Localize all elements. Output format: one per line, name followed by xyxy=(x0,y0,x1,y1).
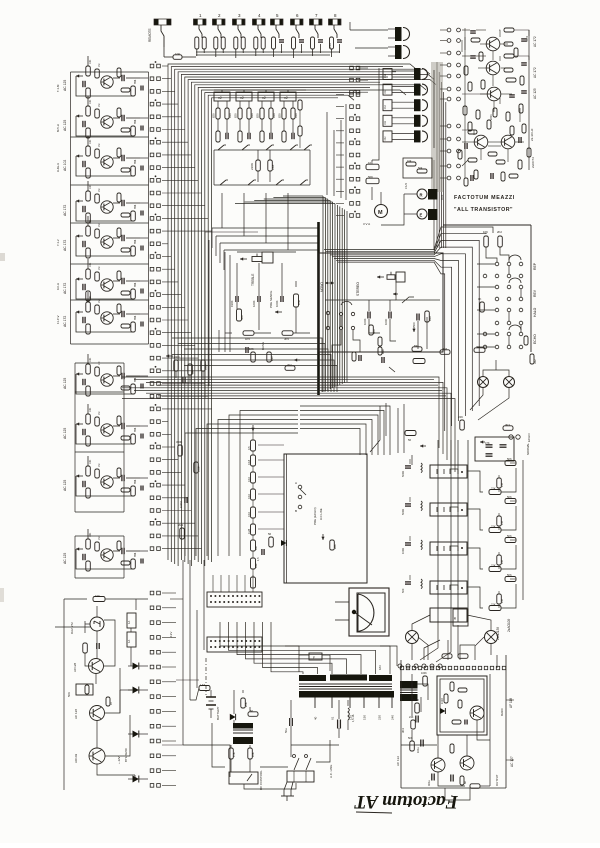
middle vertical wire bundle xyxy=(323,196,347,392)
fuse 1,5-16 xyxy=(348,708,355,722)
svg-text:100K: 100K xyxy=(525,36,528,42)
capacitor 50u xyxy=(284,718,292,733)
mains transformer core xyxy=(299,684,392,689)
tape head box 3 xyxy=(430,542,467,555)
svg-text:AC 128: AC 128 xyxy=(74,709,78,719)
svg-text:150: 150 xyxy=(363,715,367,720)
svg-text:220K: 220K xyxy=(490,114,493,120)
svg-text:MONO: MONO xyxy=(320,282,324,292)
erase coil 1 xyxy=(401,459,422,477)
choke transformer CH1 xyxy=(383,68,428,80)
dc converter transformer xyxy=(233,723,253,744)
lamp echo A xyxy=(478,377,489,388)
svg-text:500K: 500K xyxy=(413,698,419,702)
svg-text:500: 500 xyxy=(401,588,405,593)
svg-text:56: 56 xyxy=(268,532,272,536)
svg-text:1M: 1M xyxy=(98,224,101,227)
resistor B45 xyxy=(249,347,255,362)
amplifier stage AC 172 T7 xyxy=(63,292,148,334)
resistor 3K3 right xyxy=(503,423,513,430)
divider box x2 strip 4 xyxy=(280,90,296,101)
svg-text:160K: 160K xyxy=(252,300,256,307)
svg-text:820: 820 xyxy=(256,113,260,118)
resistors strip 4 xyxy=(278,101,299,142)
resistor 10K supply xyxy=(93,594,148,602)
relay section verticals xyxy=(438,440,523,622)
divider box x2 strip 3 xyxy=(258,90,274,101)
label AC125 right xyxy=(533,88,537,99)
tape head box 2 xyxy=(430,503,467,516)
svg-text:20K: 20K xyxy=(244,702,248,707)
psu frame wire xyxy=(55,626,90,628)
svg-text:3K5: 3K5 xyxy=(284,337,289,341)
svg-text:1M: 1M xyxy=(98,267,101,270)
svg-text:CH: CH xyxy=(383,105,387,109)
preamp echo control box xyxy=(284,454,367,583)
psu wires bottom xyxy=(291,700,417,745)
bottom corner bundle xyxy=(220,622,390,674)
amplifier block frames xyxy=(71,72,149,578)
svg-text:820: 820 xyxy=(278,113,282,118)
svg-text:1K16: 1K16 xyxy=(441,698,444,704)
key switch 6 xyxy=(291,13,304,38)
svg-text:A: A xyxy=(295,481,297,485)
resistor 1K5 bass xyxy=(243,331,254,341)
dash dot wire xyxy=(205,658,207,695)
resistor 560 xyxy=(237,309,245,321)
label ECHO xyxy=(533,334,537,344)
resistor 100K mid xyxy=(201,360,208,371)
svg-text:5K6: 5K6 xyxy=(507,495,512,499)
svg-text:E: E xyxy=(313,656,315,660)
key switch 4 xyxy=(253,13,266,38)
amplifier stage AC 125 T9 xyxy=(63,404,148,446)
echo matrix border xyxy=(443,225,531,352)
capacitor 100K stereo xyxy=(363,300,370,325)
svg-text:50K: 50K xyxy=(418,167,423,170)
switch cell column middle xyxy=(336,90,360,218)
resistor 10K echo xyxy=(483,230,488,247)
resistor 1M top xyxy=(474,345,485,352)
resistor 2K2 echo xyxy=(497,230,502,247)
svg-text:45: 45 xyxy=(453,616,457,620)
svg-text:240: 240 xyxy=(391,715,395,720)
label FACTOTUM MEAZZI xyxy=(454,195,515,201)
resistor 1M xyxy=(188,364,195,375)
feedback amp box xyxy=(437,676,487,735)
svg-text:10K: 10K xyxy=(89,262,92,267)
svg-text:1A: 1A xyxy=(127,621,131,624)
transistor AD149 xyxy=(74,748,105,764)
svg-text:1M: 1M xyxy=(98,104,101,107)
svg-text:A.C.LINE: A.C.LINE xyxy=(319,508,323,520)
svg-text:AC 125: AC 125 xyxy=(533,88,537,99)
svg-text:10K: 10K xyxy=(89,295,92,300)
gray scan band wires xyxy=(431,62,443,192)
svg-text:1,5A: 1,5A xyxy=(200,683,206,687)
resistor 342 edge xyxy=(530,354,537,364)
resistor 220K mid xyxy=(250,150,275,182)
label AC132 xyxy=(396,756,400,766)
resistor 500K psu xyxy=(413,698,419,713)
svg-text:CH: CH xyxy=(383,137,387,141)
svg-text:CH: CH xyxy=(383,90,387,94)
transformer top wires xyxy=(285,646,330,672)
svg-text:1000: 1000 xyxy=(384,318,388,325)
svg-text:0,10: 0,10 xyxy=(247,476,251,482)
label REP xyxy=(533,262,537,270)
contact pairs column right xyxy=(440,28,460,180)
svg-text:10K: 10K xyxy=(483,230,488,234)
svg-text:B98: B98 xyxy=(134,204,137,209)
pot box cluster right xyxy=(403,158,432,178)
svg-text:M-5-H: M-5-H xyxy=(56,124,60,132)
svg-text:2xOC72: 2xOC72 xyxy=(531,157,535,168)
svg-text:AC 127: AC 127 xyxy=(510,756,514,767)
svg-text:1M: 1M xyxy=(98,64,101,67)
potentiometer 50K supply xyxy=(67,684,93,697)
svg-text:56: 56 xyxy=(408,438,411,442)
svg-text:10K: 10K xyxy=(407,160,412,163)
svg-text:REV: REV xyxy=(533,289,537,297)
svg-text:1M: 1M xyxy=(98,537,101,540)
resistor divider under key 6 xyxy=(292,37,305,53)
arrow mid cluster xyxy=(166,354,173,357)
resistor B20 xyxy=(267,352,274,362)
lamp bottom wires xyxy=(412,615,491,660)
left vertical wire bundle xyxy=(168,150,212,566)
svg-text:100K: 100K xyxy=(204,364,208,370)
svg-text:B: B xyxy=(295,509,297,513)
connector block 2 xyxy=(207,637,262,652)
horizontal wire highway upper xyxy=(172,338,337,392)
svg-text:10K: 10K xyxy=(89,357,92,362)
key switch 7 xyxy=(310,13,323,38)
mains transformer secondary bar xyxy=(299,691,394,698)
svg-text:B10: B10 xyxy=(428,316,432,321)
svg-text:1300K: 1300K xyxy=(172,355,180,359)
svg-text:TREBLE: TREBLE xyxy=(251,274,255,286)
erase coil 2 xyxy=(401,497,422,515)
resistor 2K2 bass xyxy=(285,363,295,370)
svg-text:10K: 10K xyxy=(251,752,255,757)
driver box bottom xyxy=(430,608,468,626)
resistor 3K3 bass xyxy=(282,331,293,341)
svg-text:x2: x2 xyxy=(262,96,266,100)
resistor B93 stereo xyxy=(412,344,422,351)
rectifier diode D3 xyxy=(128,731,148,738)
components echo send xyxy=(352,352,425,372)
resistor divider under key 7 xyxy=(311,37,324,53)
connector block 1 xyxy=(207,592,262,607)
svg-text:1,5-16.: 1,5-16. xyxy=(351,714,355,722)
resistor echo right xyxy=(524,336,528,345)
label ECHO NORMAL xyxy=(527,433,531,442)
label B600 xyxy=(500,708,504,716)
cluster wires xyxy=(176,371,203,382)
resistor divider under key 1 xyxy=(195,37,206,53)
fuse 1,5A xyxy=(199,683,210,691)
relay to transformer wires xyxy=(420,622,458,662)
resistor 56 dc xyxy=(248,709,258,716)
transistor right amp Q1 xyxy=(486,37,500,51)
capacitor bass net xyxy=(246,347,248,353)
amplifier stage AC 125 T1 xyxy=(63,56,148,98)
choke transformer CH5 xyxy=(383,130,428,142)
svg-text:3K3: 3K3 xyxy=(505,423,510,427)
svg-text:28K: 28K xyxy=(333,544,337,549)
power amp wires xyxy=(412,674,490,786)
scan specks left edge xyxy=(0,253,5,602)
svg-text:R: R xyxy=(420,193,423,198)
pilot lamp left xyxy=(406,631,419,644)
svg-text:A-4E-U: A-4E-U xyxy=(56,163,60,172)
svg-text:2K2: 2K2 xyxy=(497,230,502,234)
svg-text:50K: 50K xyxy=(67,692,71,697)
svg-text:100K: 100K xyxy=(363,318,367,325)
label 242 under key 8 xyxy=(328,43,332,48)
switch cell column top xyxy=(350,66,368,94)
vertical wires echo matrix to top amp xyxy=(434,62,446,250)
resistor divider under key 8 xyxy=(330,37,343,53)
svg-text:B47: B47 xyxy=(254,545,258,550)
svg-text:100K: 100K xyxy=(421,672,427,675)
svg-text:11-P-V: 11-P-V xyxy=(56,315,60,324)
svg-text:B98: B98 xyxy=(134,79,137,84)
label AC172 b xyxy=(533,67,537,78)
fuse box E xyxy=(309,653,322,660)
switch cell column left xyxy=(150,61,211,550)
left channel tags xyxy=(56,84,60,324)
label HALO xyxy=(533,307,537,317)
svg-text:AC 172: AC 172 xyxy=(63,283,67,294)
battery symbol xyxy=(206,690,220,720)
label AF118 xyxy=(509,698,513,708)
svg-text:1M: 1M xyxy=(476,345,481,349)
svg-text:B98: B98 xyxy=(134,239,137,244)
svg-text:M: M xyxy=(378,210,383,216)
svg-text:50K: 50K xyxy=(368,175,373,179)
svg-text:100K: 100K xyxy=(275,300,279,307)
resistor 1300K xyxy=(172,355,180,371)
svg-text:2M2: 2M2 xyxy=(178,523,184,527)
resistor 2K8 xyxy=(440,347,450,354)
svg-text:AC 172: AC 172 xyxy=(533,36,537,47)
wires to tone section xyxy=(212,228,318,270)
svg-text:AC 172: AC 172 xyxy=(63,240,67,251)
resistors strip 2 xyxy=(234,101,255,142)
strip extra resistors xyxy=(298,100,302,148)
svg-text:1K: 1K xyxy=(478,297,482,301)
rectifier diode D2 xyxy=(128,687,148,694)
svg-text:B93: B93 xyxy=(414,344,419,348)
mains plug xyxy=(281,782,294,801)
horizontal wire highway lower xyxy=(122,377,455,472)
amplifier stage AC 125 T10 xyxy=(63,456,148,498)
resistor 10K input xyxy=(164,47,196,59)
amplifier stage AC 125 T2 xyxy=(63,96,148,138)
relay coil 1A a xyxy=(127,613,136,628)
svg-text:DAZ 272: DAZ 272 xyxy=(70,622,74,634)
resistor 24K bottom xyxy=(458,415,464,430)
svg-text:22K: 22K xyxy=(491,487,496,491)
wires to transformers xyxy=(350,22,388,48)
resistor divider under key 3 xyxy=(234,37,245,53)
svg-text:22K: 22K xyxy=(491,525,496,529)
svg-text:1M: 1M xyxy=(500,560,504,564)
svg-text:0,28: 0,28 xyxy=(247,528,251,534)
jack E with plug xyxy=(417,209,438,220)
svg-text:DC CONTROL: DC CONTROL xyxy=(259,770,263,790)
resistor B58 xyxy=(294,294,302,307)
erase coil 4 xyxy=(401,575,422,593)
svg-text:A.C. LINE: A.C. LINE xyxy=(329,765,333,778)
svg-text:500: 500 xyxy=(412,322,416,327)
svg-text:5K6: 5K6 xyxy=(507,534,512,538)
label MONO with arrows xyxy=(320,282,334,293)
output transformer 2 xyxy=(388,45,410,59)
svg-text:STEREO: STEREO xyxy=(356,282,360,296)
svg-text:1M: 1M xyxy=(98,412,101,415)
resistor divider under key 5 xyxy=(272,37,285,53)
lamp wires xyxy=(470,360,509,420)
svg-text:24K: 24K xyxy=(409,716,414,719)
label 12V xyxy=(117,756,121,764)
svg-text:100M: 100M xyxy=(179,502,183,509)
svg-text:1M: 1M xyxy=(98,362,101,365)
thick bus line xyxy=(317,222,320,395)
power amp border xyxy=(401,655,506,788)
svg-text:560: 560 xyxy=(240,315,244,320)
key switch 2 xyxy=(213,13,226,38)
echo matrix wires xyxy=(477,247,509,347)
wire bundle corners top-left xyxy=(168,64,436,150)
svg-text:10K: 10K xyxy=(89,407,92,412)
supply mid wires xyxy=(120,599,136,779)
resistor 500 bottom stereo xyxy=(369,325,376,335)
channel strip bus top xyxy=(214,89,306,91)
resistor 20K dc xyxy=(241,698,248,708)
diode dc converter xyxy=(230,714,236,720)
svg-text:8x600: 8x600 xyxy=(500,708,504,716)
svg-text:1M: 1M xyxy=(98,189,101,192)
right amp wires xyxy=(462,28,529,178)
verticals echo send area xyxy=(370,403,412,465)
svg-text:PRE SENCE: PRE SENCE xyxy=(269,291,273,308)
svg-text:FACTOTUM MEAZZI: FACTOTUM MEAZZI xyxy=(454,195,515,201)
choke column wires xyxy=(372,68,434,160)
bias resistor network 1 xyxy=(467,457,516,495)
svg-text:22-30 HZ: 22-30 HZ xyxy=(530,128,534,141)
svg-text:10K: 10K xyxy=(89,459,92,464)
bottom left extra wires xyxy=(162,560,330,777)
label BY126 xyxy=(124,748,128,762)
feedback components xyxy=(441,682,467,725)
amplifier stage AC 172 T4 xyxy=(63,181,148,223)
highway branch corners down xyxy=(300,406,390,455)
stereo inner wires xyxy=(325,282,440,349)
resistor 2M2 lower xyxy=(178,523,184,539)
label 2xAO109 xyxy=(507,618,511,632)
strip tails down xyxy=(222,193,288,250)
svg-text:220K: 220K xyxy=(250,163,254,170)
output transformer 1 xyxy=(388,27,410,41)
power amp lower components xyxy=(408,716,480,788)
DC control box xyxy=(229,770,263,790)
svg-text:820: 820 xyxy=(212,113,216,118)
svg-text:47K: 47K xyxy=(232,752,236,757)
wires into connector 1 xyxy=(213,575,253,592)
svg-text:Factotum AT: Factotum AT xyxy=(353,791,459,812)
arrow down box xyxy=(321,534,324,540)
arrow D1B xyxy=(420,444,426,447)
capacitor psu right xyxy=(416,716,418,723)
svg-text:40: 40 xyxy=(314,716,318,720)
resistors power top xyxy=(421,654,468,686)
capacitor 160K xyxy=(252,296,260,307)
stereo switch contacts xyxy=(326,301,360,352)
transistor right amp Q3 xyxy=(487,87,501,101)
svg-text:AD149: AD149 xyxy=(74,753,78,763)
key switch 8 xyxy=(329,13,342,38)
svg-text:1M: 1M xyxy=(98,300,101,303)
transistor right amp Q5 xyxy=(501,135,515,149)
capacitor 1,5 xyxy=(256,549,264,561)
svg-text:x2: x2 xyxy=(218,96,222,100)
resistors strip 3 xyxy=(256,101,277,142)
svg-text:16: 16 xyxy=(427,796,431,800)
capacitor electrolytic xyxy=(338,720,341,729)
svg-text:10K: 10K xyxy=(89,219,92,224)
svg-text:1,5: 1,5 xyxy=(256,557,260,561)
svg-text:10K: 10K xyxy=(175,52,180,56)
svg-text:NORMAL: NORMAL xyxy=(526,443,530,455)
verticals left of tone block xyxy=(205,232,258,398)
resistor B98 xyxy=(378,347,385,355)
svg-text:100K: 100K xyxy=(401,548,405,554)
key switch 1 xyxy=(194,13,207,38)
svg-text:61: 61 xyxy=(331,716,335,720)
echo matrix contacts xyxy=(483,255,523,349)
lamp echo B xyxy=(504,377,515,388)
resistor 300K lower xyxy=(176,440,182,456)
svg-text:7-1-2: 7-1-2 xyxy=(56,239,60,246)
svg-text:3K3: 3K3 xyxy=(401,728,405,733)
label STEREO xyxy=(356,282,360,296)
svg-text:3 V A: 3 V A xyxy=(363,222,370,226)
VU meter xyxy=(335,588,389,636)
svg-text:1M: 1M xyxy=(500,599,504,603)
svg-text:47K: 47K xyxy=(485,441,490,445)
svg-text:AC 125: AC 125 xyxy=(63,80,67,91)
svg-text:220: 220 xyxy=(378,715,382,720)
label 2xOC72 xyxy=(531,157,535,168)
resistor 100K lower xyxy=(194,462,201,473)
resistor divider under key 2 xyxy=(214,37,225,53)
svg-text:REMOTE: REMOTE xyxy=(148,28,152,42)
bundle top corners xyxy=(235,104,346,204)
amplifier stage AC 172 T6 xyxy=(63,259,148,301)
svg-text:039: 039 xyxy=(250,113,254,118)
bias resistor network 4 xyxy=(467,573,516,611)
svg-text:1K5: 1K5 xyxy=(245,337,250,341)
transistor right amp Q2 xyxy=(486,61,500,75)
resistor 47K dc xyxy=(229,748,236,759)
tape head box 4 xyxy=(430,581,467,594)
stereo preamp box xyxy=(319,253,443,352)
diode feedback xyxy=(440,708,445,714)
svg-text:x2: x2 xyxy=(240,96,244,100)
